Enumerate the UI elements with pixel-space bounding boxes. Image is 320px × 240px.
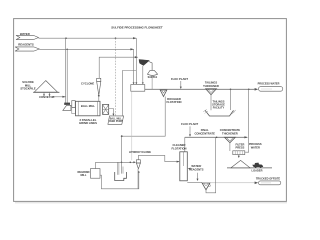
- label 2 parallel grind lines: [79, 118, 97, 125]
- wire regrind loop: [100, 169, 140, 189]
- wire reagents header y49: [39, 48, 134, 50]
- stockpile label: [20, 80, 36, 90]
- wire conditioner riser to concentrate line: [206, 137, 216, 193]
- svg-text:FLOTATION: FLOTATION: [172, 146, 187, 150]
- svg-text:FLOC PLANT: FLOC PLANT: [171, 77, 188, 81]
- wire box underflow x131.8: [131, 91, 133, 160]
- wire water+reagent drop pair to mill feed: [66, 38, 68, 103]
- ball mill feed scoop: [63, 101, 76, 114]
- svg-text:THICKENER: THICKENER: [203, 84, 219, 88]
- svg-text:PRESS: PRESS: [236, 146, 245, 150]
- wire conveyor to mill feed: [53, 96, 66, 98]
- trash screen return wire: [123, 71, 137, 116]
- cleaner flotation label: [172, 143, 187, 150]
- sampler bell: [147, 70, 157, 89]
- conditioner pump: [202, 183, 210, 190]
- svg-text:BALL MILL: BALL MILL: [110, 118, 123, 121]
- wire water drop dashed to mill sump: [115, 38, 117, 116]
- svg-text:FLOC PLANT: FLOC PLANT: [181, 122, 198, 126]
- svg-text:REAGENTS: REAGENTS: [18, 43, 34, 47]
- rougher feed box: [131, 66, 145, 91]
- tailings storage facility label: [212, 99, 225, 109]
- svg-text:CONVEYOR: CONVEYOR: [39, 95, 54, 99]
- mill discharge sump: [108, 116, 124, 124]
- loader icon: [252, 163, 263, 168]
- svg-text:CYCLONE: CYCLONE: [81, 82, 94, 86]
- process water flag top right: [255, 82, 283, 91]
- svg-text:SAMPLE: SAMPLE: [148, 76, 158, 79]
- hydrocyclone: [136, 155, 179, 168]
- wire reagents end drop x133.6: [133, 49, 135, 83]
- wire cyclone overflow y57: [99, 56, 138, 78]
- trucked flag: [210, 181, 281, 185]
- floc plant label 1: [171, 77, 188, 89]
- cleaner column: [180, 152, 188, 181]
- regrind mill label: [78, 170, 90, 177]
- svg-text:TRUCKED OFFSITE: TRUCKED OFFSITE: [256, 176, 281, 180]
- wire water header end drop x136: [135, 38, 137, 83]
- wire column tails to conditioner: [187, 181, 202, 183]
- svg-text:PROCESS WATER: PROCESS WATER: [258, 82, 280, 85]
- floc plant label 2: [181, 122, 198, 137]
- stockpile triangle: [33, 81, 59, 93]
- water reagents label: [188, 164, 204, 181]
- wire rougher line y89.3: [145, 89, 255, 91]
- wire riser x248.7: [245, 89, 249, 152]
- wire trommel to sump: [109, 109, 115, 116]
- tailings pond dish: [203, 109, 236, 116]
- trash screen funnel (dark): [139, 60, 152, 71]
- rougher flotation cell: [160, 90, 181, 104]
- svg-text:REAGENTS: REAGENTS: [189, 167, 204, 171]
- tailings thickener: [203, 81, 219, 111]
- svg-text:HYDROCYCLONE: HYDROCYCLONE: [129, 150, 151, 154]
- svg-text:SULFIDE PROCESSING FLOWSHEET: SULFIDE PROCESSING FLOWSHEET: [111, 26, 163, 30]
- svg-text:FEED PUMP: FEED PUMP: [109, 121, 123, 123]
- final concentrate label: [194, 128, 215, 135]
- concentrate thickener: [220, 128, 241, 151]
- svg-text:GRIND LINES: GRIND LINES: [79, 121, 97, 125]
- filter press: [233, 143, 245, 158]
- cyclone CYCLONE: [81, 78, 101, 102]
- feeder arrows: [43, 93, 51, 96]
- svg-text:LOADER: LOADER: [252, 169, 263, 173]
- wire final concentrate line y137.3: [185, 136, 248, 152]
- svg-text:MILL: MILL: [80, 173, 86, 177]
- wire rougher concentrate L: [121, 97, 165, 138]
- regrind mill box: [91, 169, 101, 179]
- trommel screen: [103, 104, 109, 114]
- svg-text:WATER: WATER: [251, 145, 260, 149]
- flag WATER: [16, 32, 39, 40]
- ball mill body: [76, 101, 101, 116]
- svg-text:THICKENER: THICKENER: [222, 131, 238, 135]
- process water small label: [249, 142, 262, 149]
- wire tails branch x230.5: [230, 89, 232, 110]
- wire regrind discharge to hydrocyclone: [96, 161, 136, 175]
- border frame: [14, 19, 287, 203]
- flag REAGENTS: [15, 43, 39, 52]
- svg-text:FLOTATION: FLOTATION: [167, 100, 182, 104]
- cleaner scavenger tank: [115, 136, 127, 180]
- wire water header y38: [39, 37, 137, 39]
- concentrate stockpile: [227, 160, 272, 168]
- svg-text:BALL MILL: BALL MILL: [81, 104, 95, 108]
- svg-text:FACILITY: FACILITY: [213, 106, 225, 110]
- svg-text:CONCENTRATE: CONCENTRATE: [194, 131, 215, 135]
- svg-text:STOCKPILE: STOCKPILE: [20, 87, 36, 91]
